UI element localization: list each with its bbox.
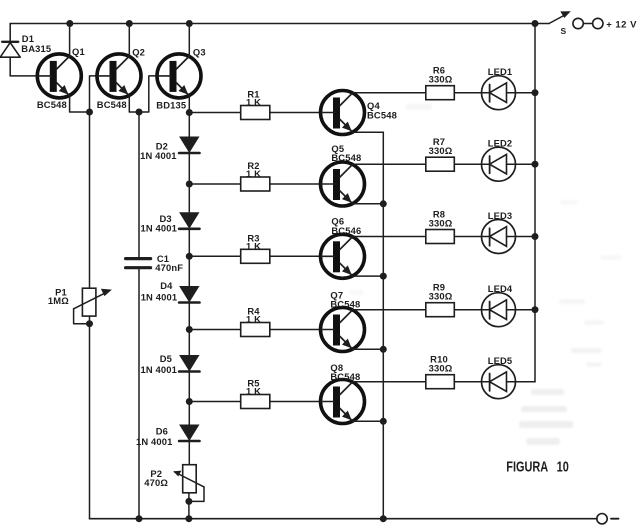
- svg-text:BC548: BC548: [330, 371, 360, 382]
- svg-text:470nF: 470nF: [155, 262, 183, 273]
- svg-text:1 K: 1 K: [246, 314, 261, 325]
- svg-text:D5: D5: [160, 353, 172, 364]
- svg-text:1MΩ: 1MΩ: [48, 295, 69, 306]
- svg-text:LED3: LED3: [488, 210, 513, 221]
- svg-text:470Ω: 470Ω: [144, 477, 168, 488]
- svg-text:BA315: BA315: [21, 43, 51, 54]
- svg-text:1N 4001: 1N 4001: [141, 222, 178, 233]
- svg-text:BC548: BC548: [37, 99, 67, 110]
- svg-text:330Ω: 330Ω: [429, 74, 453, 85]
- svg-text:Q1: Q1: [72, 46, 85, 57]
- svg-text:FIGURA 10: FIGURA 10: [506, 459, 569, 476]
- svg-text:1N 4001: 1N 4001: [140, 150, 177, 161]
- svg-text:+ 12 V: + 12 V: [606, 20, 637, 31]
- svg-text:LED5: LED5: [488, 355, 513, 366]
- svg-text:BD135: BD135: [156, 99, 186, 110]
- svg-text:1N 4001: 1N 4001: [136, 436, 173, 447]
- svg-text:Q3: Q3: [193, 46, 206, 57]
- svg-text:D6: D6: [156, 426, 168, 437]
- svg-text:1 K: 1 K: [246, 386, 261, 397]
- svg-text:LED4: LED4: [488, 283, 513, 294]
- svg-text:330Ω: 330Ω: [429, 218, 453, 229]
- svg-text:330Ω: 330Ω: [429, 291, 453, 302]
- svg-text:1N 4001: 1N 4001: [141, 364, 178, 375]
- svg-text:D4: D4: [160, 280, 173, 291]
- svg-text:S: S: [561, 26, 567, 36]
- svg-text:330Ω: 330Ω: [429, 363, 453, 374]
- svg-text:BC546: BC546: [331, 225, 361, 236]
- svg-text:BC548: BC548: [330, 299, 360, 310]
- svg-text:BC548: BC548: [97, 99, 127, 110]
- svg-text:330Ω: 330Ω: [429, 145, 453, 156]
- svg-text:Q2: Q2: [132, 46, 145, 57]
- svg-text:1N 4001: 1N 4001: [141, 292, 178, 303]
- svg-text:1 K: 1 K: [246, 97, 261, 108]
- svg-text:1 K: 1 K: [246, 168, 261, 179]
- svg-text:1 K: 1 K: [246, 240, 261, 251]
- svg-text:BC548: BC548: [331, 152, 361, 163]
- svg-text:LED2: LED2: [488, 138, 513, 149]
- svg-text:LED1: LED1: [488, 66, 513, 77]
- svg-text:BC548: BC548: [367, 110, 397, 121]
